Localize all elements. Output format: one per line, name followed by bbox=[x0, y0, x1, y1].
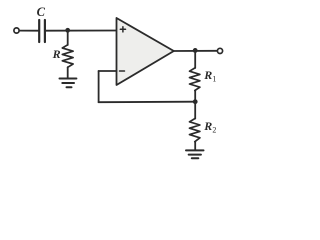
svg-text:R: R bbox=[203, 68, 212, 82]
ground (right) bbox=[186, 150, 204, 158]
wire feedback vertical bbox=[98, 71, 100, 102]
op-amp - pin mark bbox=[120, 70, 125, 72]
ground (left) bbox=[60, 79, 77, 88]
wire feedback node to R2 bbox=[194, 102, 196, 119]
wire input to capacitor bbox=[20, 30, 39, 32]
output junction dot bbox=[193, 48, 198, 53]
wire feedback horizontal bbox=[99, 101, 196, 104]
wire capacitor to op-amp + input bbox=[46, 30, 117, 32]
wire R to ground bbox=[67, 67, 69, 77]
svg-text:R: R bbox=[52, 47, 61, 61]
wire output node to R1 bbox=[194, 50, 196, 68]
op-amp U1 bbox=[117, 18, 174, 85]
svg-text:1: 1 bbox=[212, 74, 216, 83]
wire R1 to feedback node bbox=[194, 91, 196, 102]
wire node A down to R bbox=[67, 30, 69, 45]
resistor R2 bbox=[190, 119, 200, 142]
wire - input stub bbox=[99, 70, 117, 72]
input terminal bbox=[14, 28, 19, 33]
svg-text:C: C bbox=[37, 5, 46, 19]
capacitor C bbox=[39, 20, 45, 42]
wire R2 to ground bbox=[194, 142, 196, 150]
svg-text:2: 2 bbox=[212, 126, 216, 135]
resistor R1 bbox=[190, 68, 200, 91]
wire op-amp output bbox=[174, 50, 217, 52]
output terminal bbox=[217, 48, 222, 53]
resistor R bbox=[62, 45, 73, 68]
svg-text:R: R bbox=[203, 119, 212, 133]
feedback node junction dot bbox=[193, 99, 198, 104]
op-amp + pin mark bbox=[120, 27, 125, 32]
node A junction dot bbox=[65, 28, 70, 33]
